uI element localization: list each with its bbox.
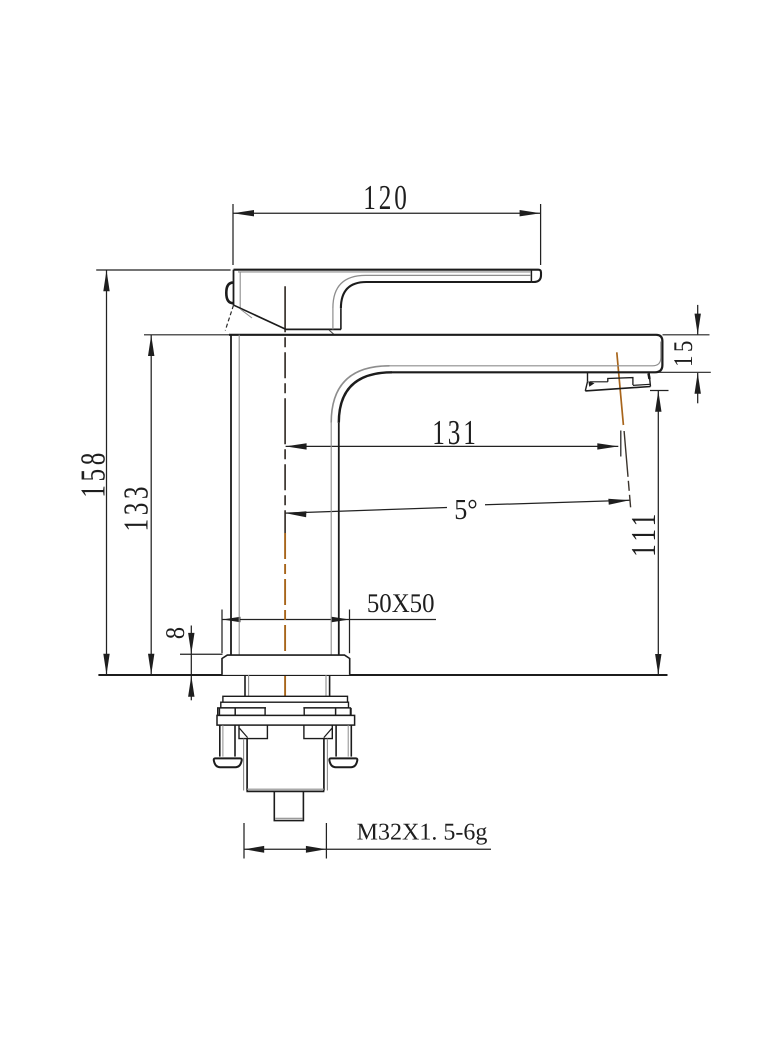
svg-text:8: 8 xyxy=(160,627,190,639)
svg-text:111: 111 xyxy=(624,510,663,557)
svg-text:15: 15 xyxy=(668,337,698,367)
svg-text:50X50: 50X50 xyxy=(367,588,435,618)
svg-text:M32X1. 5-6g: M32X1. 5-6g xyxy=(357,820,488,846)
svg-text:133: 133 xyxy=(117,483,156,532)
svg-text:120: 120 xyxy=(363,178,409,217)
svg-text:158: 158 xyxy=(74,449,113,498)
svg-text:131: 131 xyxy=(432,413,478,452)
svg-text:5°: 5° xyxy=(454,494,477,526)
